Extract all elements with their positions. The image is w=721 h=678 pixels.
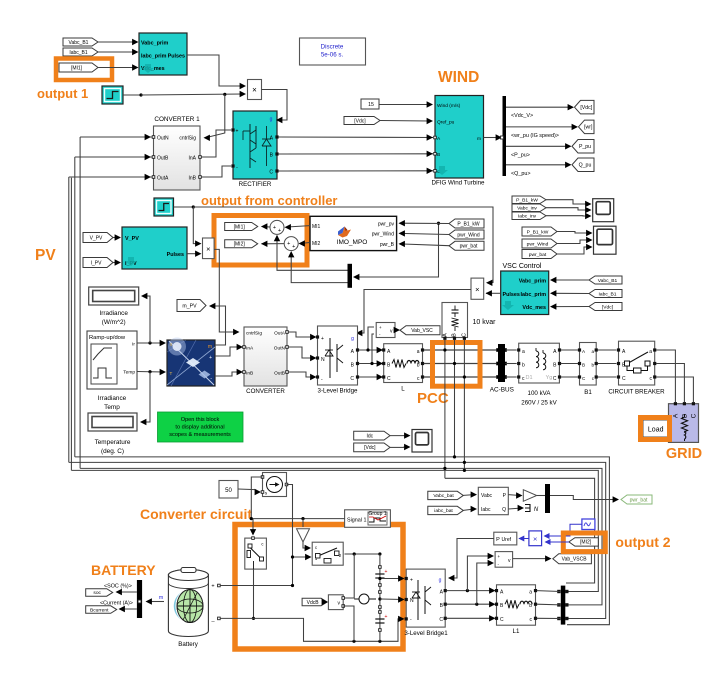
svg-text:Vabc_B1: Vabc_B1 bbox=[69, 40, 89, 46]
svg-text:CIRCUIT BREAKER: CIRCUIT BREAKER bbox=[608, 389, 665, 396]
svg-text:Battery: Battery bbox=[178, 641, 199, 648]
svg-text:OutB: OutB bbox=[157, 156, 169, 162]
svg-text:A: A bbox=[443, 333, 449, 337]
svg-text:B: B bbox=[582, 363, 585, 368]
svg-text:Iabc_prim: Iabc_prim bbox=[141, 54, 167, 60]
svg-text:C: C bbox=[387, 376, 391, 382]
svg-text:VSC Control: VSC Control bbox=[503, 263, 542, 270]
svg-text:Converter circuit: Converter circuit bbox=[140, 506, 252, 522]
svg-text:(deg. C): (deg. C) bbox=[101, 448, 124, 455]
svg-text:pwr_pv: pwr_pv bbox=[378, 222, 395, 228]
svg-text:cntrlSig: cntrlSig bbox=[246, 331, 262, 337]
svg-text:B: B bbox=[437, 152, 440, 158]
svg-text:<Current (A)>: <Current (A)> bbox=[100, 601, 133, 607]
svg-text:A: A bbox=[673, 413, 680, 418]
svg-text:P_B1_kW: P_B1_kW bbox=[457, 221, 480, 227]
svg-text:CONVERTER: CONVERTER bbox=[246, 388, 285, 395]
svg-text:Pulses: Pulses bbox=[168, 54, 185, 60]
svg-text:InA: InA bbox=[188, 156, 196, 162]
svg-text:N: N bbox=[534, 507, 539, 513]
svg-text:Temp: Temp bbox=[104, 404, 120, 411]
svg-text:C: C bbox=[500, 617, 504, 623]
svg-text:+: + bbox=[273, 225, 276, 231]
svg-text:B1: B1 bbox=[584, 389, 592, 396]
svg-text:+: + bbox=[209, 355, 212, 361]
svg-text:C: C bbox=[691, 413, 698, 418]
svg-text:output 2: output 2 bbox=[615, 534, 670, 550]
svg-text:Vabc_prim: Vabc_prim bbox=[519, 279, 546, 285]
svg-text:C: C bbox=[622, 376, 626, 382]
svg-text:cntrlSig: cntrlSig bbox=[179, 136, 196, 142]
svg-text:10 kvar: 10 kvar bbox=[473, 319, 497, 326]
svg-text:OutN: OutN bbox=[274, 346, 286, 352]
svg-text:InB: InB bbox=[188, 176, 196, 182]
svg-text:a: a bbox=[591, 349, 594, 354]
svg-text:<Q_pu>: <Q_pu> bbox=[511, 171, 530, 177]
svg-text:<wr_pu (IG speed)>: <wr_pu (IG speed)> bbox=[511, 133, 559, 139]
svg-text:Irradiance: Irradiance bbox=[99, 310, 128, 317]
svg-text:260V / 25 kV: 260V / 25 kV bbox=[521, 400, 557, 407]
svg-text:pwr_bat: pwr_bat bbox=[630, 497, 648, 503]
svg-text:×: × bbox=[206, 245, 210, 254]
svg-text:Bcurrent: Bcurrent bbox=[90, 607, 109, 613]
svg-text:[Vdc]: [Vdc] bbox=[602, 304, 614, 310]
svg-text:D1: D1 bbox=[525, 375, 532, 381]
svg-text:PV: PV bbox=[35, 247, 56, 264]
svg-text:OutA: OutA bbox=[274, 331, 286, 337]
svg-text:WIND: WIND bbox=[438, 69, 479, 86]
svg-text:Ir: Ir bbox=[132, 342, 135, 348]
svg-text:a: a bbox=[522, 349, 525, 355]
svg-text:P_pu: P_pu bbox=[579, 144, 591, 150]
svg-text:Idc: Idc bbox=[367, 433, 374, 439]
svg-text:Iabc_B1: Iabc_B1 bbox=[69, 50, 88, 56]
svg-text:CONVERTER 1: CONVERTER 1 bbox=[154, 116, 200, 123]
svg-text:Vabc_inv: Vabc_inv bbox=[517, 206, 537, 212]
svg-text:soc: soc bbox=[93, 591, 101, 596]
svg-text:I_PV: I_PV bbox=[91, 260, 103, 266]
svg-text:Vabc_prim: Vabc_prim bbox=[141, 41, 168, 47]
svg-text:pwr_Wind: pwr_Wind bbox=[527, 241, 549, 247]
svg-text:50: 50 bbox=[225, 488, 232, 494]
svg-text:Q: Q bbox=[502, 507, 506, 513]
svg-text:B: B bbox=[452, 333, 458, 337]
svg-text:Ramp-up/dow: Ramp-up/dow bbox=[89, 335, 126, 341]
svg-text:+: + bbox=[410, 578, 413, 584]
svg-text:Uref: Uref bbox=[502, 537, 512, 543]
svg-text:[MI2]: [MI2] bbox=[234, 242, 246, 248]
svg-text:×: × bbox=[252, 86, 257, 95]
svg-text:5e-06 s.: 5e-06 s. bbox=[321, 52, 344, 59]
svg-text:+: + bbox=[498, 554, 501, 559]
svg-text:Qref_pu: Qref_pu bbox=[437, 120, 455, 126]
svg-text:V_PV: V_PV bbox=[125, 236, 139, 242]
svg-text:Temperature: Temperature bbox=[95, 439, 131, 446]
svg-text:m_PV: m_PV bbox=[182, 303, 197, 309]
svg-text:scopes & measurements: scopes & measurements bbox=[169, 432, 231, 438]
svg-text:pwr_Wind: pwr_Wind bbox=[372, 232, 394, 238]
svg-text:Iabc_B1: Iabc_B1 bbox=[599, 291, 617, 297]
svg-text:MI1: MI1 bbox=[312, 224, 321, 230]
svg-text:<SOC (%)>: <SOC (%)> bbox=[104, 584, 132, 590]
svg-text:+: + bbox=[385, 569, 388, 575]
svg-text:<P_pu>: <P_pu> bbox=[511, 152, 530, 158]
svg-text:Temp: Temp bbox=[123, 370, 135, 376]
svg-text:Open this block: Open this block bbox=[181, 417, 220, 423]
svg-text:InB: InB bbox=[246, 371, 253, 377]
svg-text:Q_pu: Q_pu bbox=[579, 163, 592, 169]
svg-text:P_B1_kW: P_B1_kW bbox=[527, 229, 549, 235]
svg-text:[Vdc]: [Vdc] bbox=[580, 105, 592, 111]
svg-text:+: + bbox=[287, 241, 290, 247]
svg-text:Pulses: Pulses bbox=[503, 292, 520, 298]
svg-text:Iabc_inv: Iabc_inv bbox=[518, 214, 537, 220]
svg-text:a: a bbox=[417, 349, 420, 355]
svg-text:+: + bbox=[278, 228, 281, 234]
svg-text:<Vdc_V>: <Vdc_V> bbox=[511, 113, 533, 119]
svg-text:Iabc: Iabc bbox=[481, 507, 491, 513]
svg-text:g: g bbox=[439, 578, 442, 584]
svg-text:output 1: output 1 bbox=[37, 86, 88, 101]
svg-text:L1: L1 bbox=[513, 628, 520, 635]
svg-text:(W/m^2): (W/m^2) bbox=[102, 319, 126, 326]
svg-text:C: C bbox=[350, 376, 354, 382]
svg-text:100 kVA: 100 kVA bbox=[528, 390, 552, 397]
svg-text:VdcB: VdcB bbox=[307, 600, 320, 606]
svg-text:P_B1_kW: P_B1_kW bbox=[516, 198, 538, 204]
svg-text:N: N bbox=[410, 598, 414, 604]
svg-text:Signal 1: Signal 1 bbox=[347, 518, 366, 524]
svg-text:b: b bbox=[522, 363, 525, 369]
svg-text:+: + bbox=[385, 614, 388, 620]
svg-text:Load: Load bbox=[648, 427, 664, 434]
svg-text:g: g bbox=[270, 117, 273, 123]
svg-text:Vabc_bat: Vabc_bat bbox=[433, 493, 454, 499]
svg-text:MI2: MI2 bbox=[312, 241, 321, 247]
svg-text:m: m bbox=[159, 595, 163, 601]
svg-text:c: c bbox=[261, 542, 263, 547]
svg-text:Irradiance: Irradiance bbox=[98, 395, 127, 402]
svg-text:+: + bbox=[292, 244, 295, 250]
svg-text:N: N bbox=[321, 357, 325, 363]
svg-text:OutB: OutB bbox=[274, 371, 285, 377]
svg-text:InA: InA bbox=[246, 346, 254, 352]
svg-text:+: + bbox=[321, 336, 324, 342]
svg-text:+: + bbox=[211, 584, 214, 590]
svg-text:pwr_B: pwr_B bbox=[380, 242, 395, 248]
svg-text:T: T bbox=[170, 371, 173, 376]
svg-text:Group 1: Group 1 bbox=[368, 511, 386, 517]
svg-text:Discrete: Discrete bbox=[321, 44, 344, 51]
svg-text:C: C bbox=[269, 170, 273, 176]
svg-text:m: m bbox=[477, 137, 481, 142]
svg-text:AC-BUS: AC-BUS bbox=[490, 387, 514, 394]
svg-text:Vabc: Vabc bbox=[481, 493, 493, 499]
svg-text:Yg: Yg bbox=[546, 375, 553, 381]
svg-text:+: + bbox=[236, 129, 239, 135]
svg-text:BATTERY: BATTERY bbox=[91, 562, 156, 578]
svg-text:Vabc_B1: Vabc_B1 bbox=[598, 278, 618, 284]
svg-text:OutA: OutA bbox=[157, 176, 169, 182]
svg-text:pwr_Wind: pwr_Wind bbox=[457, 232, 479, 238]
svg-text:×: × bbox=[475, 285, 479, 294]
svg-text:to display additional: to display additional bbox=[175, 425, 224, 431]
svg-text:Ir: Ir bbox=[170, 342, 173, 347]
svg-text:a: a bbox=[649, 349, 652, 355]
svg-text:b: b bbox=[591, 363, 594, 368]
svg-text:pwr_bat: pwr_bat bbox=[529, 252, 547, 258]
svg-text:RECTIFIER: RECTIFIER bbox=[239, 181, 272, 188]
svg-text:[Vdc]: [Vdc] bbox=[354, 118, 366, 124]
svg-text:a: a bbox=[529, 590, 532, 596]
svg-text:15: 15 bbox=[368, 102, 374, 108]
svg-text:3-Level Bridge1: 3-Level Bridge1 bbox=[404, 630, 448, 637]
svg-text:DFIG Wind Turbine: DFIG Wind Turbine bbox=[432, 180, 486, 187]
svg-text:C: C bbox=[439, 617, 443, 623]
svg-text:[MI2]: [MI2] bbox=[580, 540, 592, 546]
svg-text:Vdc_mes: Vdc_mes bbox=[522, 305, 546, 311]
svg-text:GRID: GRID bbox=[666, 446, 702, 462]
svg-text:Vab_VSC: Vab_VSC bbox=[411, 328, 433, 334]
svg-text:3-Level Bridge: 3-Level Bridge bbox=[318, 388, 358, 395]
svg-text:+: + bbox=[379, 325, 382, 330]
svg-text:[MI1]: [MI1] bbox=[234, 224, 246, 230]
svg-text:P: P bbox=[496, 537, 500, 543]
svg-text:iabc_bat: iabc_bat bbox=[434, 508, 453, 514]
svg-text:c: c bbox=[315, 545, 317, 550]
svg-text:m: m bbox=[208, 344, 212, 350]
svg-text:[wr]: [wr] bbox=[584, 125, 593, 131]
svg-text:Wind (m/s): Wind (m/s) bbox=[437, 103, 461, 109]
svg-text:[Vdc]: [Vdc] bbox=[364, 445, 376, 451]
svg-text:C: C bbox=[553, 376, 557, 382]
svg-text:[MI1]: [MI1] bbox=[71, 65, 83, 71]
svg-text:C: C bbox=[462, 333, 468, 337]
svg-text:g: g bbox=[351, 336, 354, 342]
svg-text:PCC: PCC bbox=[417, 390, 449, 407]
svg-text:Pulses: Pulses bbox=[167, 252, 184, 258]
svg-text:OutN: OutN bbox=[157, 136, 169, 142]
svg-text:×: × bbox=[533, 535, 537, 544]
svg-text:V_PV: V_PV bbox=[90, 235, 103, 241]
svg-text:Iabc_prim: Iabc_prim bbox=[521, 292, 547, 298]
svg-text:output from controller: output from controller bbox=[201, 193, 338, 208]
svg-text:Vab_VSCB: Vab_VSCB bbox=[562, 557, 588, 563]
svg-text:pwr_bat: pwr_bat bbox=[460, 244, 478, 250]
svg-text:IMO_MPO: IMO_MPO bbox=[337, 239, 368, 246]
svg-text:L: L bbox=[401, 386, 405, 393]
